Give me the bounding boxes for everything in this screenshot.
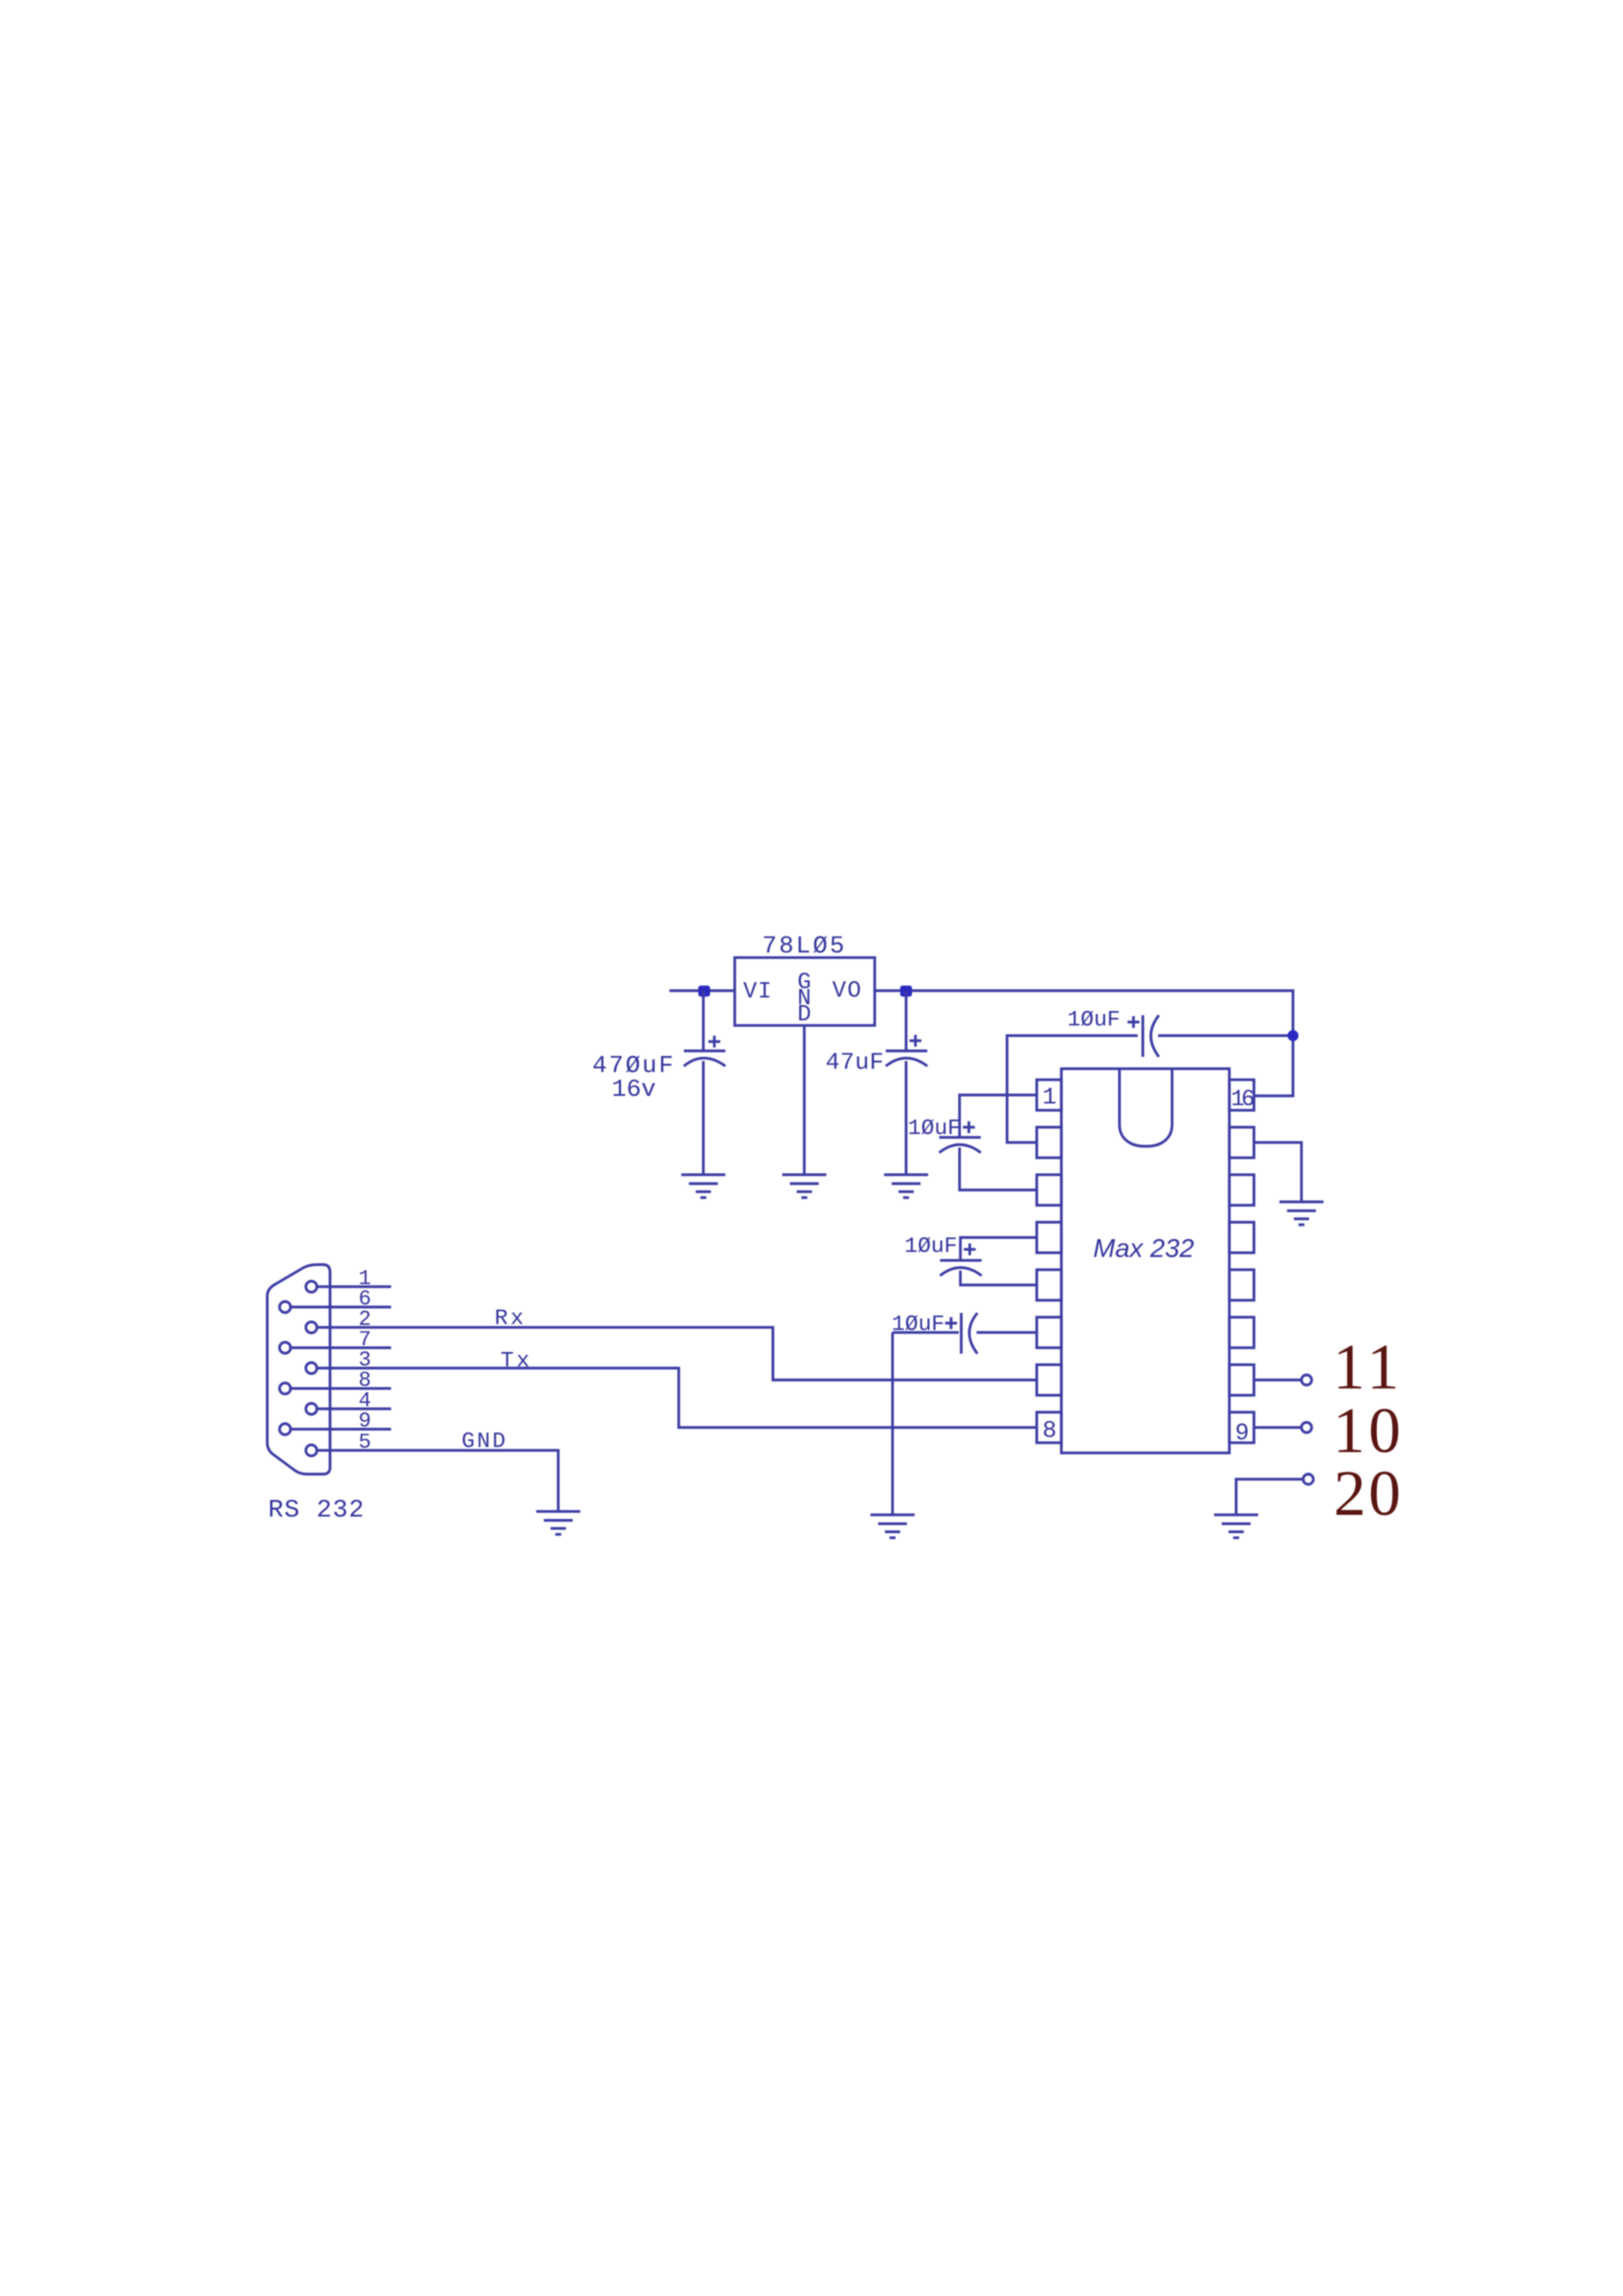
svg-text:Rx: Rx	[495, 1305, 526, 1331]
capacitor C4 10uF wire left segment	[1007, 1036, 1138, 1142]
ground under 470uF	[681, 1175, 725, 1198]
svg-text:47uF: 47uF	[825, 1050, 884, 1076]
connector pin circle 6	[280, 1302, 291, 1313]
wire pin4 to C2	[960, 1237, 1037, 1260]
wire C2 to pin5	[960, 1271, 1037, 1285]
wire Rx pin2 to pin7 of IC	[317, 1327, 1037, 1380]
voltage regulator U2 78L05 box	[735, 958, 875, 1025]
connector pin circle 1	[306, 1282, 317, 1293]
svg-text:1ØuF: 1ØuF	[1067, 1007, 1120, 1032]
stub wire pin 4	[317, 1407, 391, 1410]
pin box 13	[1229, 1222, 1254, 1253]
svg-text:RS 232: RS 232	[268, 1496, 365, 1525]
node junction VCC at pin16 riser	[1288, 1031, 1299, 1042]
stub wire pin 7	[291, 1346, 391, 1349]
capacitor C 470uF positive lead	[702, 991, 704, 1051]
pin box 14	[1229, 1175, 1254, 1205]
pin box 4	[1037, 1222, 1061, 1253]
ground at terminal 20	[1214, 1515, 1258, 1538]
capacitor C1 10uF curved plate	[939, 1145, 981, 1154]
wire terminal 20 to ground	[1236, 1479, 1303, 1515]
connector J1 DB9 outline	[267, 1265, 330, 1474]
capacitor C3 10uF plus sign	[945, 1317, 957, 1329]
capacitor C4 10uF curved plate	[1151, 1015, 1160, 1057]
svg-text:1ØuF: 1ØuF	[908, 1115, 960, 1141]
capacitor C3 wire right to pin6	[977, 1331, 1037, 1333]
svg-text:1ØuF: 1ØuF	[892, 1311, 944, 1337]
pin box 8	[1037, 1412, 1061, 1443]
connector pin circle 4	[306, 1404, 317, 1415]
capacitor C 47uF top plate	[886, 1049, 927, 1052]
ground under C3	[870, 1515, 915, 1538]
ground at pin15	[1279, 1202, 1324, 1225]
stub wire pin 8	[291, 1387, 391, 1389]
ground under 47uF	[884, 1175, 928, 1198]
svg-text:10: 10	[1333, 1395, 1404, 1466]
pin box 9	[1229, 1412, 1254, 1443]
node junction at 470uF input	[698, 986, 710, 997]
svg-text:GND: GND	[462, 1428, 507, 1454]
svg-text:8: 8	[1043, 1418, 1057, 1444]
stub wire pin 1	[317, 1285, 391, 1288]
wire VO output	[875, 991, 1293, 1096]
capacitor C2 10uF curved plate	[940, 1268, 982, 1276]
capacitor C3 10uF straight plate	[960, 1313, 962, 1354]
wire GND pin5	[317, 1450, 558, 1511]
connector pin circle 5	[306, 1445, 317, 1456]
stub wire pin 6	[291, 1305, 391, 1308]
connector pin circle 8	[280, 1383, 291, 1394]
pin box 6	[1037, 1317, 1061, 1348]
capacitor C 47uF curved plate	[886, 1059, 927, 1067]
stub wire pin 9	[291, 1427, 391, 1430]
svg-text:VO: VO	[832, 979, 862, 1004]
wire Tx pin3 to pin8 of IC	[317, 1368, 1037, 1427]
svg-text:Max 232: Max 232	[1094, 1233, 1195, 1263]
wire regulator GND pin down	[803, 1025, 805, 1175]
svg-text:16: 16	[1231, 1087, 1254, 1113]
svg-text:Tx: Tx	[501, 1348, 532, 1373]
pin box 16	[1229, 1080, 1254, 1110]
wire 47uF to ground	[904, 1061, 907, 1175]
capacitor C 470uF plus sign	[708, 1036, 720, 1047]
capacitor C4 wire right segment	[1158, 1034, 1293, 1036]
capacitor C3 10uF curved plate	[970, 1313, 978, 1354]
capacitor C2 10uF plus sign	[964, 1243, 976, 1255]
connector pin circle 2	[306, 1322, 317, 1333]
wire pin1 to C1	[960, 1095, 1037, 1137]
pin box 1	[1037, 1080, 1061, 1110]
pin box 12	[1229, 1270, 1254, 1300]
pin box 7	[1037, 1365, 1061, 1395]
terminal circle pin9	[1301, 1422, 1312, 1433]
capacitor C2 10uF straight plate	[940, 1259, 982, 1261]
ground under regulator	[782, 1175, 826, 1198]
capacitor C 470uF curved plate	[684, 1059, 725, 1067]
capacitor C4 10uF straight plate	[1141, 1015, 1144, 1057]
wire pin15 to ground	[1254, 1142, 1301, 1202]
capacitor C 47uF plus sign	[909, 1035, 921, 1047]
capacitor C 470uF top plate	[684, 1049, 725, 1052]
capacitor C 47uF positive lead	[904, 991, 907, 1051]
wire pin10 to terminal	[1254, 1378, 1301, 1381]
capacitor C1 10uF straight plate	[939, 1136, 981, 1138]
pin box 15	[1229, 1127, 1254, 1158]
pin box 10	[1229, 1365, 1254, 1395]
wire C1 to pin3	[960, 1148, 1037, 1190]
svg-text:16v: 16v	[612, 1075, 656, 1103]
connector pin circle 9	[280, 1424, 291, 1435]
svg-text:20: 20	[1334, 1458, 1403, 1529]
svg-text:1: 1	[1043, 1085, 1057, 1111]
pin box 2	[1037, 1127, 1061, 1158]
wire C3 to ground	[891, 1332, 893, 1515]
pin box 5	[1037, 1270, 1061, 1300]
svg-text:9: 9	[1235, 1421, 1250, 1447]
svg-text:78LØ5: 78LØ5	[762, 932, 847, 960]
capacitor C3 10uF wire left	[893, 1331, 959, 1333]
IC notch	[1120, 1070, 1172, 1147]
connector pin circle 3	[306, 1363, 317, 1374]
capacitor C4 10uF plus sign	[1128, 1016, 1139, 1028]
svg-text:1ØuF: 1ØuF	[904, 1233, 957, 1259]
terminal circle pin10	[1301, 1375, 1312, 1385]
svg-text:11: 11	[1333, 1332, 1403, 1403]
svg-text:VI: VI	[743, 980, 772, 1005]
capacitor C1 10uF plus sign	[963, 1121, 975, 1133]
wire 470uF to ground	[702, 1061, 704, 1175]
svg-text:D: D	[798, 1003, 811, 1028]
connector pin circle 7	[280, 1343, 291, 1354]
ground under GND wire	[536, 1511, 580, 1534]
pin box 11	[1229, 1317, 1254, 1348]
wire pin9 to terminal	[1254, 1426, 1301, 1428]
node junction at 47uF	[900, 986, 912, 997]
terminal circle 20	[1303, 1474, 1313, 1484]
pin box 3	[1037, 1175, 1061, 1205]
IC U1 Max 232 body	[1061, 1069, 1229, 1453]
wire input to regulator	[669, 989, 735, 992]
